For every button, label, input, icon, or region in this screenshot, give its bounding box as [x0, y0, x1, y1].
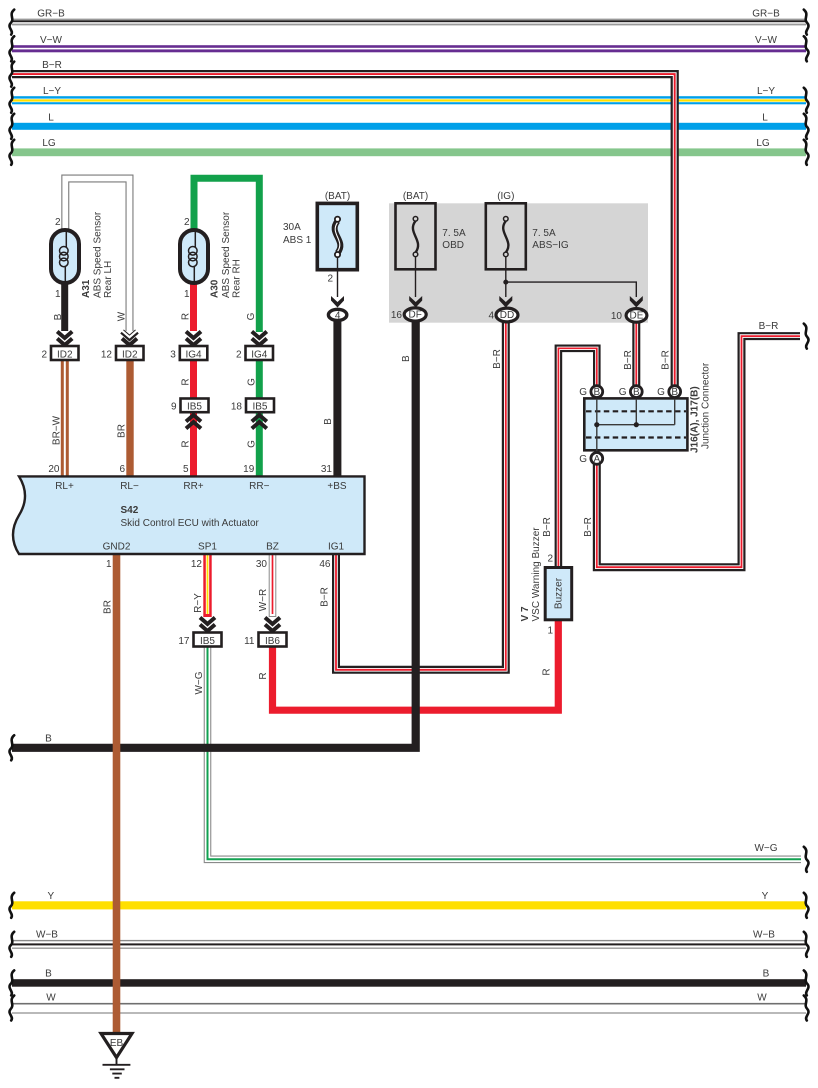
svg-text:3: 3: [170, 349, 176, 360]
svg-text:9: 9: [171, 402, 177, 413]
svg-text:B−R: B−R: [583, 517, 594, 537]
svg-text:G: G: [579, 454, 587, 465]
svg-text:30A: 30A: [283, 222, 301, 233]
ground EB: [101, 1034, 132, 1078]
bus L (blue): [12, 123, 806, 130]
svg-text:DD: DD: [500, 310, 514, 321]
svg-text:W−G: W−G: [194, 671, 205, 694]
wire W-G connector 17 IB5 down, right to page edge: [208, 647, 802, 860]
svg-text:B: B: [45, 969, 52, 980]
connector box 11 IB6: [244, 633, 286, 647]
svg-text:6: 6: [119, 464, 125, 475]
svg-text:ID2: ID2: [122, 349, 138, 360]
connector box 3 IG4: [170, 346, 207, 360]
svg-text:BR−W: BR−W: [52, 415, 63, 445]
wire R connector 11 IB6 right to buzzer pin1: [273, 618, 559, 710]
ECU bottom pin numbers: [106, 559, 331, 570]
chevron arrows up into 18 IB5: [252, 415, 267, 429]
svg-text:R: R: [181, 440, 192, 447]
svg-text:GR−B: GR−B: [752, 9, 780, 20]
wire BR ECU GND2 to ground EB: [113, 554, 121, 1033]
svg-text:B−R: B−R: [320, 587, 331, 607]
svg-text:EB: EB: [110, 1038, 124, 1049]
svg-text:(BAT): (BAT): [403, 191, 428, 202]
svg-text:B: B: [763, 969, 770, 980]
svg-text:J16(A), J17(B): J16(A), J17(B): [690, 386, 701, 453]
svg-text:7. 5A: 7. 5A: [442, 228, 466, 239]
component name labels (vertical): [520, 362, 712, 621]
chevron arrows into 11 IB6: [265, 618, 280, 632]
svg-text:B: B: [323, 418, 334, 425]
svg-text:2: 2: [327, 274, 333, 285]
svg-text:R: R: [542, 668, 553, 675]
arrow into oval DD: [499, 296, 512, 308]
svg-text:ABS Speed Sensor: ABS Speed Sensor: [221, 211, 232, 298]
svg-text:B−R: B−R: [661, 350, 672, 370]
svg-text:4: 4: [488, 311, 494, 322]
wire W loop A31 pin2 to connector 12 ID2: [65, 179, 129, 332]
svg-text:Junction Connector: Junction Connector: [701, 362, 712, 449]
sensor A30 labels: [184, 211, 243, 300]
svg-text:G: G: [657, 387, 665, 398]
bus Y (yellow): [12, 901, 806, 909]
connector box 2 ID2: [41, 346, 78, 360]
svg-text:G: G: [619, 387, 627, 398]
svg-text:IB5: IB5: [200, 636, 215, 647]
connector oval 4 DD: [496, 308, 518, 322]
connector oval 4: [328, 309, 346, 321]
svg-text:B: B: [401, 355, 412, 362]
svg-text:S42: S42: [121, 505, 139, 516]
svg-text:V−W: V−W: [40, 35, 63, 46]
svg-text:RL−: RL−: [120, 481, 139, 492]
svg-text:+BS: +BS: [327, 481, 347, 492]
svg-text:G: G: [247, 440, 258, 448]
svg-text:RR−: RR−: [249, 481, 269, 492]
svg-text:Y: Y: [47, 891, 54, 902]
arrow into oval DF: [409, 296, 422, 308]
svg-text:1: 1: [106, 559, 112, 570]
svg-text:7. 5A: 7. 5A: [532, 228, 556, 239]
svg-text:IB6: IB6: [265, 636, 280, 647]
continuation squiggles right edge: [804, 10, 809, 1021]
svg-text:12: 12: [191, 559, 203, 570]
svg-text:GR−B: GR−B: [37, 9, 65, 20]
wire B-R buzzer pin2 up and right to junction B1: [558, 348, 596, 567]
svg-text:G: G: [579, 387, 587, 398]
svg-text:L: L: [762, 113, 768, 124]
svg-text:5: 5: [183, 464, 189, 475]
bus GR-B (gray/black): [12, 19, 806, 26]
svg-text:B: B: [633, 387, 640, 398]
svg-text:2: 2: [547, 554, 553, 565]
bus B-R trunk (black/red), turns down at right to junction B3: [12, 74, 675, 386]
svg-text:W−B: W−B: [753, 929, 775, 940]
bus V-W (violet/white): [12, 45, 806, 52]
svg-text:B: B: [45, 734, 52, 745]
wire R connector 3 IG4 to 9 IB5 to ECU pin 5: [190, 360, 197, 476]
svg-text:2: 2: [184, 217, 190, 228]
svg-text:17: 17: [178, 636, 190, 647]
svg-text:V 7: V 7: [520, 606, 531, 621]
wire G loop A30 pin2 to connector 2 IG4: [194, 178, 259, 332]
svg-text:LG: LG: [756, 138, 770, 149]
wire R-Y ECU SP1 to 17 IB5: [203, 554, 211, 617]
fuse labels: [283, 191, 622, 322]
svg-text:19: 19: [243, 464, 255, 475]
svg-text:ID2: ID2: [57, 349, 73, 360]
svg-text:R−Y: R−Y: [193, 593, 204, 613]
svg-text:BZ: BZ: [266, 542, 279, 553]
wire W-R ECU BZ to 11 IB6: [269, 554, 277, 617]
connector box 2 IG4: [236, 346, 273, 360]
svg-text:W−B: W−B: [36, 929, 58, 940]
svg-text:2: 2: [55, 217, 61, 228]
gray relay panel: [389, 203, 648, 322]
sensor A31 ABS Speed Sensor Rear LH: [51, 230, 79, 283]
svg-text:46: 46: [319, 559, 331, 570]
svg-text:Buzzer: Buzzer: [554, 577, 565, 609]
svg-text:ABS 1: ABS 1: [283, 235, 312, 246]
svg-text:LG: LG: [42, 138, 56, 149]
svg-text:(BAT): (BAT): [325, 191, 350, 202]
svg-text:G: G: [247, 378, 258, 386]
svg-text:SP1: SP1: [198, 542, 217, 553]
junction connector J16(A), J17(B): [584, 398, 687, 453]
svg-text:DF: DF: [409, 310, 422, 321]
svg-text:B: B: [671, 387, 678, 398]
connector box 18 IB5: [231, 399, 274, 413]
svg-text:L: L: [48, 113, 54, 124]
wire R A30 pin1 to connector 3 IG4: [190, 281, 197, 331]
connector box 12 ID2: [101, 346, 144, 360]
wire G connector 2 IG4 to 18 IB5 to ECU pin 19: [256, 360, 263, 476]
svg-text:BR: BR: [117, 424, 128, 438]
wire B oval DF down to black bus, bus runs left to page edge: [12, 322, 416, 748]
svg-text:OBD: OBD: [442, 240, 464, 251]
bus labels left: [36, 9, 65, 1004]
svg-text:B−R: B−R: [42, 60, 62, 71]
svg-text:30: 30: [256, 559, 268, 570]
fuse 7.5A ABS-IG: [486, 203, 526, 297]
svg-text:Rear RH: Rear RH: [232, 259, 243, 298]
svg-text:ABS Speed Sensor: ABS Speed Sensor: [93, 211, 104, 298]
svg-text:RL+: RL+: [55, 481, 74, 492]
svg-text:IB5: IB5: [252, 402, 267, 413]
svg-text:Skid Control ECU with Actuator: Skid Control ECU with Actuator: [121, 518, 260, 529]
junction pin circle B2: [619, 386, 642, 399]
chevron arrows into 12 ID2 (white wire): [122, 331, 137, 345]
ECU S42 Skid Control ECU with Actuator: [13, 476, 365, 554]
svg-text:VSC Warning Buzzer: VSC Warning Buzzer: [531, 527, 542, 622]
sensor A31 labels: [55, 211, 114, 300]
wire B fuse ABS1 oval 4 to ECU pin 31 +BS: [333, 322, 341, 477]
svg-text:4: 4: [335, 310, 341, 321]
svg-text:2: 2: [41, 349, 47, 360]
svg-text:RR+: RR+: [183, 481, 203, 492]
svg-text:11: 11: [244, 636, 255, 647]
svg-text:L−Y: L−Y: [43, 86, 61, 97]
svg-text:B: B: [593, 387, 600, 398]
sensor A30 ABS Speed Sensor Rear RH: [180, 230, 208, 283]
svg-text:1: 1: [547, 626, 553, 637]
svg-text:DE: DE: [630, 311, 644, 322]
svg-text:ABS−IG: ABS−IG: [532, 240, 569, 251]
svg-text:12: 12: [101, 349, 113, 360]
junction pin circle B1: [579, 386, 602, 399]
chevron arrows into 2 IG4: [252, 332, 267, 346]
fuse 30A ABS 1: [317, 203, 357, 297]
svg-text:B−R: B−R: [492, 349, 503, 369]
svg-text:A30: A30: [210, 279, 221, 298]
svg-text:2: 2: [236, 349, 242, 360]
connector oval 10 DE: [626, 309, 647, 323]
svg-text:GND2: GND2: [103, 542, 131, 553]
svg-text:W−G: W−G: [754, 843, 777, 854]
svg-text:BR: BR: [103, 600, 114, 614]
svg-text:IB5: IB5: [187, 402, 202, 413]
svg-text:16: 16: [391, 310, 403, 321]
svg-text:W: W: [757, 992, 767, 1003]
wire B A31 pin1 to connector 2 ID2: [61, 281, 68, 331]
svg-text:IG4: IG4: [251, 349, 268, 360]
svg-text:IG1: IG1: [328, 542, 345, 553]
bus L-Y (blue/yellow): [12, 96, 806, 104]
svg-text:B−R: B−R: [542, 517, 553, 537]
bus labels right: [752, 9, 780, 1004]
svg-text:G: G: [246, 312, 257, 320]
svg-text:31: 31: [321, 464, 333, 475]
connector box 9 IB5: [171, 399, 209, 413]
junction pin circle B3: [657, 386, 680, 399]
wire B-R oval DE to junction B2: [632, 322, 640, 386]
wire branch to DE with junction dot: [503, 280, 636, 297]
bus W-B (white/black): [12, 940, 806, 949]
svg-text:R: R: [181, 378, 192, 385]
wire BR-W connector 2 ID2 to ECU pin 20: [61, 360, 69, 476]
svg-text:B: B: [53, 313, 64, 320]
fuse 7.5A OBD: [396, 203, 436, 297]
svg-text:R: R: [181, 313, 192, 320]
svg-text:Rear LH: Rear LH: [103, 261, 114, 298]
svg-text:1: 1: [184, 289, 190, 300]
bus LG (light green): [12, 148, 806, 156]
junction pin circle A: [579, 453, 602, 466]
continuation squiggles left edge: [9, 10, 14, 1021]
arrow into oval DE: [630, 296, 643, 308]
ECU top pin numbers: [48, 464, 332, 475]
svg-text:V−W: V−W: [755, 35, 778, 46]
svg-text:W: W: [117, 311, 128, 321]
svg-text:10: 10: [611, 311, 623, 322]
svg-text:B−R: B−R: [623, 350, 634, 370]
svg-text:W: W: [46, 992, 56, 1003]
wire BR connector 12 ID2 to ECU pin 6: [126, 360, 133, 476]
buzzer V7 VSC Warning Buzzer: [545, 554, 572, 637]
svg-text:L−Y: L−Y: [757, 86, 775, 97]
connector box 17 IB5: [178, 633, 221, 647]
svg-text:(IG): (IG): [497, 191, 514, 202]
wire B-R junction A down, right, up to page edge top right: [597, 336, 800, 567]
bus W (white): [12, 1003, 806, 1014]
connector oval 16 DF: [404, 308, 426, 321]
svg-text:Y: Y: [762, 891, 769, 902]
svg-text:R: R: [258, 672, 269, 679]
svg-text:W−R: W−R: [258, 589, 269, 612]
svg-text:A31: A31: [81, 279, 92, 298]
chevron arrows into 2 ID2: [57, 332, 72, 346]
svg-text:IG4: IG4: [185, 349, 202, 360]
svg-text:20: 20: [48, 464, 60, 475]
chevron arrows into 3 IG4: [186, 332, 201, 346]
svg-text:1: 1: [55, 289, 61, 300]
svg-text:B−R: B−R: [759, 321, 779, 332]
bus B (black): [12, 979, 806, 987]
svg-text:A: A: [593, 454, 600, 465]
wire B-R ECU IG1 pin46 to fuse oval DD: [336, 322, 506, 670]
wire color labels (vertical): [52, 311, 672, 694]
svg-text:18: 18: [231, 402, 243, 413]
chevron arrows into 17 IB5: [200, 618, 215, 632]
arrow into oval 4: [331, 296, 344, 308]
chevron arrows up into 9 IB5: [186, 415, 201, 429]
